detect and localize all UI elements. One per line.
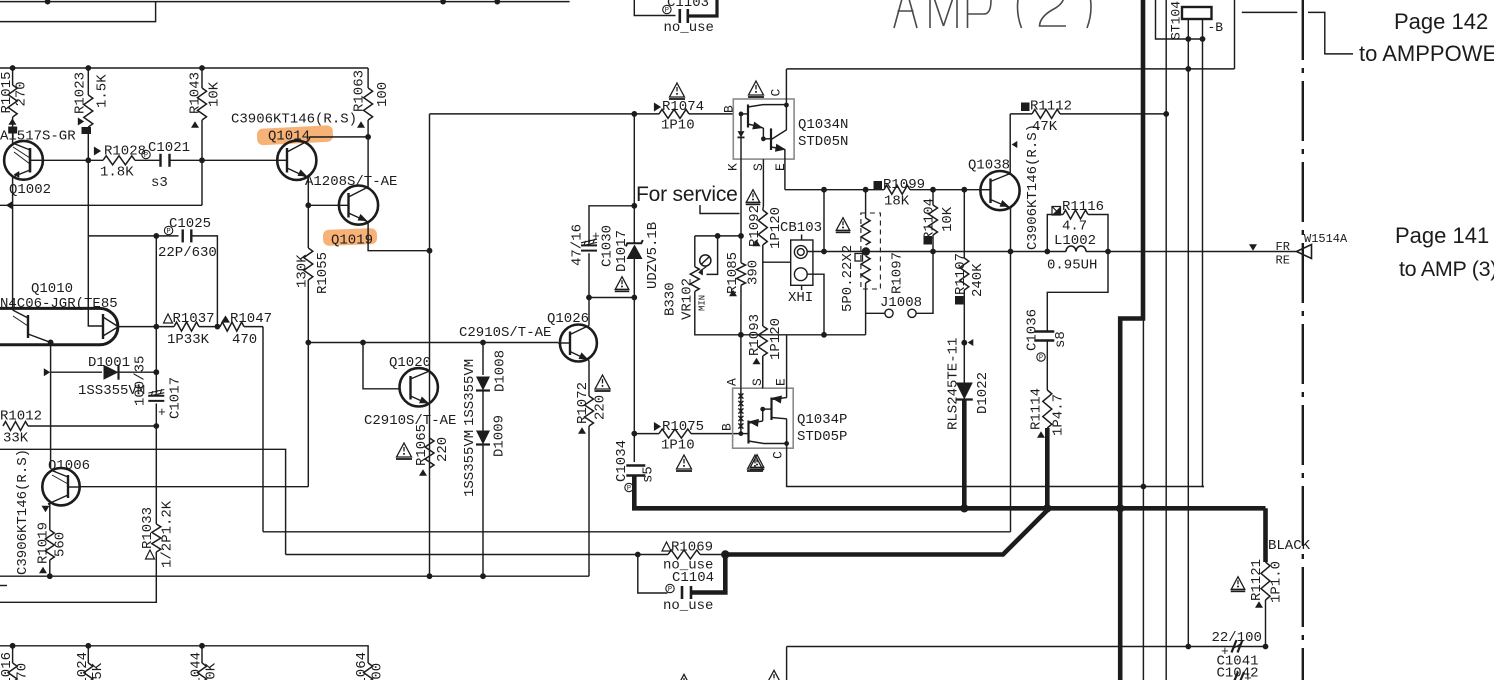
svg-text:R1063: R1063	[352, 70, 368, 112]
node thick x1120 y508	[1116, 504, 1124, 512]
svg-text:22P/630: 22P/630	[158, 245, 217, 261]
svg-text:220: 220	[435, 437, 451, 462]
transistor Q1006 emitter	[48, 495, 68, 504]
wire x51 Q1006 collector	[50, 372, 52, 468]
svg-text:s8: s8	[1053, 331, 1069, 348]
svg-text:VR102: VR102	[680, 278, 696, 320]
svg-text:s5: s5	[641, 466, 657, 483]
Q1010 internals left transistor	[27, 315, 29, 338]
diode D1022 RLS245TE-11	[963, 343, 965, 384]
wire Q1034N E down	[784, 159, 786, 190]
svg-text:no_use: no_use	[663, 598, 713, 614]
node y342 x363	[360, 340, 366, 346]
Q1010 emitter node	[48, 340, 54, 346]
resistor R1016	[12, 646, 14, 663]
wire rail68 corner down to R1063	[367, 68, 369, 88]
svg-text:15K: 15K	[90, 662, 106, 680]
svg-text:47/16: 47/16	[570, 224, 586, 266]
wire y297 link	[589, 297, 634, 299]
resistor R1099 18K	[874, 181, 883, 190]
wire x156 down to D1001	[155, 327, 157, 373]
svg-text:D1008: D1008	[493, 350, 509, 392]
resistor R1107 240K	[963, 190, 965, 258]
wire CB103 top circle to rail190	[807, 251, 824, 253]
wire top rail y=1.6	[0, 1, 570, 3]
wire Q1034P S up	[762, 357, 764, 388]
resistor R1074 1P10	[670, 83, 685, 97]
svg-text:240K: 240K	[970, 263, 986, 297]
wire x12 down to Q1010	[12, 205, 14, 310]
svg-text:R1092: R1092	[747, 205, 763, 247]
node y190 x964	[961, 187, 967, 193]
marker arrow on y205 wire	[6, 201, 12, 209]
wire to Page142 connector right of dashline	[1308, 12, 1353, 54]
svg-text:18K: 18K	[884, 194, 910, 210]
svg-text:P: P	[627, 485, 631, 493]
svg-text:R1047: R1047	[230, 311, 272, 327]
svg-text:B330: B330	[663, 282, 679, 316]
node y190 x933	[930, 187, 936, 193]
resistor R1114 1P4.7	[1046, 341, 1048, 391]
capacitor C1025 22P/630	[183, 229, 192, 242]
resistor R1028 1.8K	[43, 159, 103, 161]
node x1143 y487	[1141, 484, 1147, 490]
transistor Q1002 emitter	[13, 170, 30, 177]
wire R1092 to CB103	[763, 245, 791, 262]
svg-text:1.8K: 1.8K	[100, 165, 134, 181]
svg-text:+: +	[158, 405, 166, 420]
node y646 x1188	[1185, 644, 1191, 650]
wire R1047 right down to rail532	[262, 327, 264, 532]
node x483 y576	[480, 573, 486, 579]
svg-text:C3906KT146(R.S): C3906KT146(R.S)	[1025, 124, 1041, 250]
wire bottom y=646 with box top	[787, 646, 1266, 648]
wire rail y=68	[0, 67, 368, 69]
svg-text:W1514A: W1514A	[1304, 232, 1348, 246]
wire rail K bias y=236	[695, 235, 741, 237]
wire Q1034N C up	[785, 69, 787, 105]
svg-text:UDZV5.1B: UDZV5.1B	[645, 222, 661, 289]
svg-text:C1036: C1036	[1025, 309, 1041, 351]
svg-text:C: C	[768, 89, 783, 97]
node thick x964	[960, 504, 968, 512]
svg-text:100/35: 100/35	[133, 356, 149, 406]
resistor R1023 1.5K	[87, 68, 89, 95]
node y190 x824	[821, 187, 827, 193]
device Q1034P STD05P	[733, 388, 794, 448]
svg-text:no_use: no_use	[664, 20, 714, 36]
wire x308 down to Q1006 base	[307, 343, 309, 487]
svg-text:P: P	[1039, 355, 1043, 363]
boundary dash-dot line	[1302, 0, 1304, 680]
svg-text:1P120: 1P120	[768, 318, 784, 360]
svg-text:1SS355VM: 1SS355VM	[462, 359, 478, 426]
box top-left component outline	[0, 2, 156, 22]
svg-text:10K: 10K	[940, 206, 956, 232]
wire rail y=252 to W1514A	[1108, 251, 1297, 253]
svg-text:RE: RE	[1276, 254, 1290, 268]
svg-text:R1055: R1055	[315, 252, 331, 294]
svg-text:1P10: 1P10	[661, 438, 695, 454]
svg-text:CB103: CB103	[780, 220, 822, 236]
node x589 y297	[586, 295, 592, 301]
Q1034N internals	[739, 112, 744, 117]
wire long x=1166	[1165, 0, 1167, 680]
node y190 x865	[863, 187, 869, 193]
wire Q1034N K down	[740, 159, 742, 236]
resistor R1121 1P1.0	[1261, 562, 1270, 600]
svg-text:C1021: C1021	[148, 140, 190, 156]
svg-text:C1017: C1017	[168, 377, 184, 419]
wire thick rail y554 right	[725, 510, 1047, 554]
diode D1009 1SS355VM	[476, 431, 490, 445]
svg-text:C2910S/T-AE: C2910S/T-AE	[364, 413, 456, 429]
node x430 y576	[427, 573, 433, 579]
svg-text:P: P	[668, 586, 672, 594]
node C1017 bottom / R1012	[153, 423, 159, 429]
resistor R1072 220	[588, 361, 590, 397]
wire Q1014 emitter down	[307, 178, 309, 205]
svg-text:C1025: C1025	[169, 216, 211, 232]
svg-text:5P0.22X2: 5P0.22X2	[840, 245, 856, 312]
wire Q1019 emitter down to node430	[368, 222, 429, 251]
svg-text:R1104: R1104	[922, 198, 938, 240]
node rail68 x88.3	[85, 65, 91, 71]
svg-text:0.95UH: 0.95UH	[1047, 258, 1097, 274]
node x430 y251	[427, 248, 433, 254]
svg-text:C1034: C1034	[614, 440, 630, 482]
wire Q1020 base drop	[363, 343, 399, 389]
wire x88 down segment	[87, 160, 89, 308]
svg-text:33K: 33K	[3, 431, 29, 447]
resistor R1019 560	[45, 530, 54, 560]
node y114 x634	[631, 111, 637, 117]
svg-text:220: 220	[593, 395, 609, 420]
svg-text:R1072: R1072	[575, 382, 591, 424]
wire vertical x=1155 top	[1156, 0, 1203, 39]
node x634 y434	[631, 431, 637, 437]
svg-text:100: 100	[375, 82, 391, 107]
wire D1009 down	[482, 445, 484, 577]
node x964 y343	[961, 340, 967, 346]
wire x1143 thin lower	[1142, 319, 1144, 680]
svg-text:BLACK: BLACK	[1268, 538, 1311, 554]
node x634 y206	[631, 203, 637, 209]
svg-text:C2910S/T-AE: C2910S/T-AE	[459, 325, 551, 341]
svg-text:Q1010: Q1010	[31, 281, 73, 297]
svg-text:1/2P1.2K: 1/2P1.2K	[160, 500, 176, 568]
wire long x=1202	[1203, 39, 1205, 487]
svg-text:R1114: R1114	[1029, 388, 1045, 430]
svg-text:R1024: R1024	[75, 652, 91, 680]
wire Q1034N S down	[762, 159, 764, 206]
wire CB103 bottom circle down	[807, 274, 824, 335]
zener D1017 UDZV5.1B	[633, 114, 635, 206]
wire x156 down from C1025	[155, 236, 157, 327]
svg-text:R1116: R1116	[1062, 199, 1104, 215]
wire x634 down to R1075	[633, 298, 635, 434]
svg-text:J1008: J1008	[880, 295, 922, 311]
wire D1008-D1009 link	[482, 391, 484, 431]
svg-text:R1085: R1085	[725, 252, 741, 294]
node rail68 x12.6	[10, 65, 16, 71]
capacitor C1103 no_use	[634, 0, 675, 16]
resistor-pair 5P0.22X2 R1097	[865, 190, 867, 218]
resistor R1104 10K	[932, 190, 934, 205]
svg-text:For service: For service	[636, 183, 738, 206]
node y236 R1085	[738, 233, 744, 239]
node rail68 x202	[199, 65, 205, 71]
svg-text:1SS355VM: 1SS355VM	[462, 430, 478, 497]
wire bottom rail y=646	[0, 646, 368, 663]
svg-text:1P33K: 1P33K	[167, 332, 210, 348]
node y250 x1010	[1008, 249, 1014, 255]
node x634 y297	[631, 295, 637, 301]
node rail646 x202	[199, 643, 205, 649]
svg-text:C1103: C1103	[667, 0, 709, 11]
box bottom-right left edge	[786, 647, 788, 680]
wire thick BLACK drop	[1263, 508, 1268, 562]
resistor R1043 10K	[201, 68, 203, 88]
highlight Q1019	[323, 228, 378, 246]
wire Q1006 base to x308	[80, 486, 308, 488]
svg-text:R1043: R1043	[188, 72, 204, 114]
svg-text:-B: -B	[1208, 20, 1224, 35]
capacitor C1104 no_use	[638, 555, 668, 594]
wire rail y=190 output	[785, 189, 884, 191]
svg-text:L1002: L1002	[1054, 233, 1096, 249]
capacitor C1021 s3	[161, 154, 170, 167]
node Q1010 out / R1037	[153, 324, 159, 330]
resistor R1015 270	[12, 68, 14, 85]
wire x430 long vertical	[429, 114, 431, 576]
capacitor C1034 s5	[633, 434, 635, 462]
Q1034P internals	[740, 388, 742, 433]
resistor R1069 no_use	[662, 542, 671, 551]
svg-text:R1019: R1019	[36, 522, 52, 564]
resistor R1055 130K	[307, 205, 309, 248]
svg-text:R1016: R1016	[0, 652, 15, 680]
node thick x1047	[1043, 504, 1051, 512]
resistor R1044	[201, 646, 203, 663]
svg-text:R1121: R1121	[1249, 559, 1265, 601]
node rail646 x12	[10, 643, 16, 649]
node y236 wiper	[715, 233, 721, 239]
wire Q1019 collector up	[367, 137, 369, 187]
svg-text:130K: 130K	[295, 254, 311, 288]
svg-text:RLS245TE-11: RLS245TE-11	[946, 338, 962, 430]
svg-text:1P10: 1P10	[661, 118, 695, 134]
svg-text:Q1002: Q1002	[9, 182, 51, 198]
svg-text:K: K	[725, 163, 740, 171]
node C1021/R1043	[199, 157, 205, 163]
resistor R1065 220	[425, 438, 434, 468]
wire Q1014 collector to x368	[309, 137, 369, 141]
svg-text:390: 390	[746, 260, 762, 285]
svg-text:R1065: R1065	[414, 424, 430, 466]
svg-text:R1064: R1064	[354, 652, 370, 680]
svg-text:Q1034P: Q1034P	[797, 412, 847, 428]
svg-text:560: 560	[53, 532, 69, 557]
wire long x=1188	[1187, 39, 1189, 647]
resistor R1064	[364, 663, 373, 680]
wire Q1034P A up	[740, 335, 742, 388]
Q1010 internals right transistor	[102, 314, 104, 339]
svg-text:D1009: D1009	[492, 415, 508, 457]
lead ST104 pin1	[1187, 19, 1189, 39]
svg-text:Q1034N: Q1034N	[798, 117, 848, 133]
wire +B box outline right	[1234, 0, 1236, 69]
svg-text:R1033: R1033	[140, 507, 156, 549]
node rail69 / x1188	[1185, 66, 1191, 72]
svg-text:MIN: MIN	[697, 295, 707, 311]
resistor R1047 470	[221, 315, 230, 322]
resistor R1024	[87, 646, 89, 663]
svg-text:Page 142: Page 142	[1394, 9, 1488, 34]
resistor R1085 390	[740, 236, 742, 263]
node A/R1085/VR102 y335	[738, 332, 744, 338]
resistor R1093 1P120	[758, 326, 767, 356]
svg-text:R1075: R1075	[662, 419, 704, 435]
svg-text:Page 141: Page 141	[1395, 223, 1489, 248]
wire y=205 rail	[0, 204, 202, 206]
marker arrow on W1514A wire	[1249, 244, 1257, 250]
wire C1034 bottom thick to rail508	[634, 476, 1265, 509]
wire Q1002 collector up	[12, 142, 14, 144]
wire Q1010 emitter down	[50, 345, 52, 372]
capacitor C1017 100/35	[155, 372, 157, 393]
bus thick x=1143 upper	[1120, 0, 1143, 680]
wire x824 up to rail190	[823, 190, 825, 252]
wire rail y=602 stub	[0, 585, 7, 587]
svg-text:STD05P: STD05P	[797, 429, 847, 445]
node R1069 left	[635, 552, 641, 558]
lead ST104 pin2	[1202, 19, 1204, 39]
node C1025/x156	[153, 233, 159, 239]
wire For service pointer	[700, 205, 740, 214]
node y250 x933	[930, 249, 936, 255]
wire rail y=250	[824, 251, 1047, 253]
svg-text:to AMPPOWER: to AMPPOWER	[1359, 41, 1494, 66]
svg-text:+: +	[1244, 671, 1252, 680]
marker arrow x964	[968, 339, 974, 346]
svg-text:470: 470	[232, 332, 257, 348]
connector W1514A arrow	[1297, 245, 1312, 259]
node R1028 left / Q1002 base	[85, 157, 91, 163]
svg-text:10K: 10K	[207, 81, 223, 107]
svg-text:100: 100	[370, 663, 386, 680]
resistor R1092 1P120	[746, 190, 760, 203]
node on top rail	[440, 0, 446, 5]
svg-text:Q1019: Q1019	[331, 233, 373, 249]
node y342 x483 (D1008 top)	[480, 340, 486, 346]
capacitor C1036 s8	[1034, 332, 1054, 341]
wire to Page142 connector	[1242, 11, 1298, 13]
wire rail y=554 thin	[286, 554, 638, 556]
marker arrow Q1038 collector	[1012, 141, 1018, 148]
wire x589 collector up to C1030	[588, 298, 590, 326]
svg-text:R1069: R1069	[671, 540, 713, 556]
svg-text:A: A	[724, 378, 739, 386]
node E junction y335	[821, 332, 827, 338]
wire x156 down to Q1006 base rail	[155, 426, 157, 500]
svg-text:R1097: R1097	[890, 252, 906, 294]
device Q1034N STD05N	[733, 99, 794, 159]
wire Q1002 emitter down	[12, 177, 14, 205]
node x824 y251	[821, 249, 827, 255]
node rail646 x88	[85, 643, 91, 649]
svg-text:1P4.7: 1P4.7	[1051, 394, 1067, 436]
Q1034N K zener	[740, 114, 742, 131]
node on top rail	[45, 0, 51, 5]
svg-text:R1107: R1107	[953, 253, 969, 295]
node ST104 pin2	[1200, 36, 1206, 42]
resistor R1116 4.7	[1052, 207, 1061, 216]
svg-text:47K: 47K	[1032, 119, 1058, 135]
node y646 x1265	[1263, 644, 1269, 650]
svg-text:22/100: 22/100	[1212, 630, 1262, 646]
svg-text:R1044: R1044	[189, 652, 205, 680]
resistor R1033 1/2P1.2K	[155, 500, 157, 524]
wire Q1034P E up	[786, 335, 788, 388]
svg-text:B: B	[721, 105, 736, 113]
wire rail y=190 right part	[910, 189, 980, 191]
wire rail y=69 (+B collector rail)	[787, 68, 1235, 70]
wire Q1010 output to x156	[118, 326, 156, 328]
capacitor C1042 partial	[1233, 672, 1238, 680]
title AMP(2) large stroke letters	[894, 0, 1091, 28]
wire rail y=576	[0, 575, 589, 577]
svg-text:STD05N: STD05N	[798, 134, 848, 150]
potentiometer VR102 B330	[694, 236, 696, 267]
svg-text:D1017: D1017	[614, 230, 630, 272]
svg-text:R1023: R1023	[73, 72, 89, 114]
wire Q1038 collector up	[1009, 114, 1011, 174]
resistor R1112 47K	[1021, 103, 1030, 112]
node Q1019 base	[305, 202, 311, 208]
svg-text:R1028: R1028	[104, 144, 146, 160]
wire x1010 feedback down	[1010, 252, 1012, 532]
diode D1008 1SS355VM	[482, 343, 484, 376]
resistor R1063 100	[364, 88, 373, 120]
wire base bus x202 down	[201, 160, 203, 205]
fuse ST104	[1182, 7, 1212, 19]
node R1069 right (thick)	[721, 550, 729, 558]
warning bottom box 2	[767, 670, 781, 680]
svg-text:270: 270	[14, 81, 30, 106]
svg-text:1.5K: 1.5K	[95, 74, 111, 108]
svg-text:XHI: XHI	[788, 290, 813, 306]
svg-text:ST104: ST104	[1168, 1, 1183, 40]
wire C1104 right thick	[691, 555, 725, 593]
svg-text:to AMP (3): to AMP (3)	[1399, 257, 1494, 281]
svg-text:270: 270	[15, 663, 31, 680]
svg-text:R1037: R1037	[173, 311, 215, 327]
svg-text:D1022: D1022	[975, 372, 991, 414]
node y114 x1166	[1163, 111, 1169, 117]
wire rail y=532	[263, 531, 1011, 533]
node ST104 pin1	[1185, 36, 1191, 42]
svg-text:10K: 10K	[204, 662, 220, 680]
wire rail y=449	[0, 449, 286, 554]
node R1019 bottom	[47, 573, 53, 579]
wire R1074 rail y=114	[430, 113, 660, 115]
node L1002 right	[1105, 249, 1111, 255]
node R1055 bottom / y342	[305, 340, 311, 346]
node y250 x1047	[1044, 249, 1050, 255]
wire S chain down to R1093	[762, 262, 764, 326]
node on top rail	[494, 0, 500, 5]
